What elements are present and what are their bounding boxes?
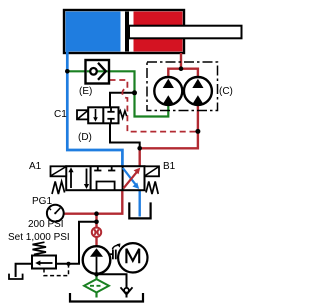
svg-text:A1: A1 xyxy=(29,161,42,172)
svg-text:Set 1,000 PSI: Set 1,000 PSI xyxy=(8,232,70,243)
svg-text:(D): (D) xyxy=(78,132,92,143)
svg-text:200 PSI: 200 PSI xyxy=(28,219,64,230)
svg-text:C1: C1 xyxy=(54,109,67,120)
svg-text:(E): (E) xyxy=(79,86,92,97)
svg-text:PG1: PG1 xyxy=(32,196,52,207)
svg-text:B1: B1 xyxy=(163,161,176,172)
svg-text:(C): (C) xyxy=(219,86,233,97)
